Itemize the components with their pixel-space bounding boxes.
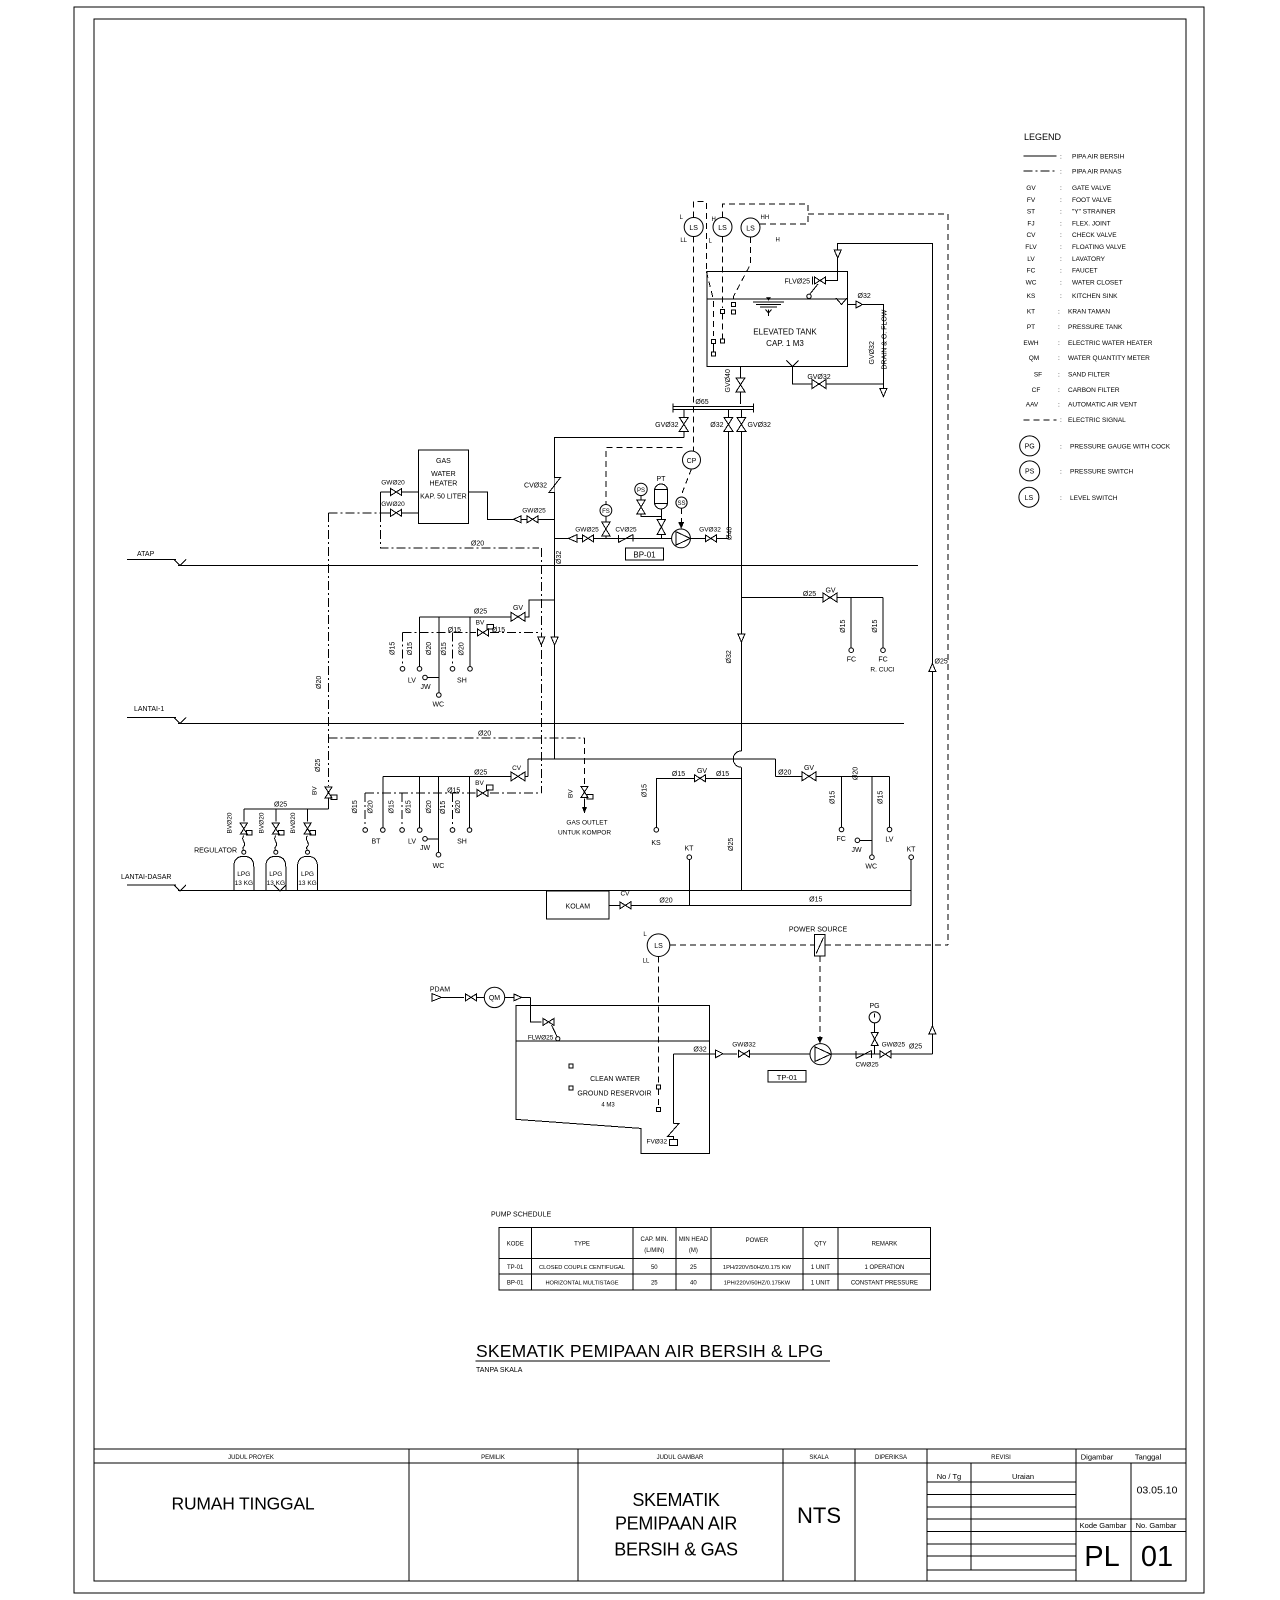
LPG tank 3 [306,850,310,854]
main riser crossing loop at distribution line [733,751,741,767]
svg-text:KT: KT [685,846,695,853]
pressure switch PS [635,483,647,495]
svg-text:CLEAN WATER: CLEAN WATER [590,1076,640,1083]
svg-text:Ø32: Ø32 [693,1047,706,1054]
svg-text:REGULATOR: REGULATOR [194,848,237,855]
svg-text:CV: CV [512,765,522,772]
svg-text:Ø15: Ø15 [840,619,847,632]
BT hot drop [364,793,366,828]
svg-text:GVØ32: GVØ32 [655,422,678,429]
svg-text:GROUND RESERVOIR: GROUND RESERVOIR [577,1091,651,1098]
pump schedule table [499,1227,931,1290]
svg-text:13 KG: 13 KG [267,880,285,887]
svg-text:FC: FC [847,657,856,664]
svg-text:TYPE: TYPE [574,1242,590,1248]
reservoir suction line [673,1053,736,1055]
svg-text:QM: QM [489,995,500,1002]
svg-text:Ø25: Ø25 [909,1044,922,1051]
svg-text:REMARK: REMARK [872,1242,898,1248]
kran taman KT right [909,855,914,860]
svg-text:BP-01: BP-01 [507,1281,524,1287]
svg-text:KRAN TAMAN: KRAN TAMAN [1068,309,1110,316]
svg-text:CP: CP [687,458,697,465]
svg-text::: : [1060,169,1062,176]
svg-text:BV: BV [476,620,485,627]
discharge gate valve GV#32 [690,537,728,539]
svg-text:1PH/220V/50HZ/0.175KW: 1PH/220V/50HZ/0.175KW [724,1281,791,1287]
svg-text:JW: JW [851,847,862,854]
svg-text:EWH: EWH [1023,340,1038,347]
svg-text:PT: PT [1027,324,1035,331]
svg-text::: : [1060,469,1062,476]
legend PS symbol [1020,461,1040,481]
svg-text:BT: BT [372,838,382,845]
gate valve GV#32 right below manifold [740,409,742,751]
svg-text:1 UNIT: 1 UNIT [811,1281,830,1287]
svg-text:PEMIPAAN AIR: PEMIPAAN AIR [615,1514,737,1534]
svg-text:LPG: LPG [237,871,250,878]
svg-text:LEVEL SWITCH: LEVEL SWITCH [1070,495,1118,502]
svg-text:PIPA AIR BERSIH: PIPA AIR BERSIH [1072,154,1125,161]
svg-text:FOOT VALVE: FOOT VALVE [1072,197,1112,204]
svg-text:PS: PS [1025,469,1035,476]
svg-text:PEMILIK: PEMILIK [481,1455,505,1461]
LS1 wire down to CP [693,237,695,452]
probe squares left [569,1064,573,1068]
overflow notch [836,298,847,305]
faucet FC drop 1 [850,598,852,648]
SH hot drop [452,793,454,828]
svg-text:FC: FC [878,657,887,664]
BT drop [382,776,384,827]
svg-text:CV: CV [620,891,630,898]
svg-text:PG: PG [869,1003,879,1010]
svg-text:Ø32: Ø32 [710,422,723,429]
svg-text:TP-01: TP-01 [777,1073,797,1082]
svg-text:LL: LL [680,238,687,244]
svg-text:JUDUL PROYEK: JUDUL PROYEK [228,1455,274,1461]
svg-text:FAUCET: FAUCET [1072,268,1098,275]
svg-text:GVØ32: GVØ32 [807,374,830,381]
svg-text:Ø15: Ø15 [830,791,837,804]
JW tap [423,675,428,680]
svg-text:Ø15: Ø15 [448,627,461,634]
tank drain line with GV#32 [793,366,884,384]
lantai-1 fixture header [420,600,555,617]
LS2 probe squares [721,310,725,314]
manifold header phi65 [673,406,754,408]
svg-text::: : [1060,154,1062,161]
svg-text:LANTAI-DASAR: LANTAI-DASAR [121,874,171,881]
svg-text:Ø15: Ø15 [809,897,822,904]
svg-text:HEATER: HEATER [429,481,457,488]
svg-text:WC: WC [433,863,445,870]
kolam feed pipe [609,904,911,906]
svg-text:SS: SS [677,501,685,507]
ball valve BV on gas riser [325,787,332,798]
svg-text:CARBON FILTER: CARBON FILTER [1068,387,1120,394]
svg-text:FC: FC [1027,268,1036,275]
check valve CV#25 [618,535,633,543]
svg-text:GVØ32: GVØ32 [748,422,771,429]
LS2 wire to probes [722,237,724,309]
svg-text:ELECTRIC SIGNAL: ELECTRIC SIGNAL [1068,417,1126,424]
svg-text:TANPA SKALA: TANPA SKALA [476,1367,523,1374]
svg-text:RUMAH TINGGAL: RUMAH TINGGAL [172,1494,315,1514]
lavatory hot drop [402,633,404,667]
WC drop right [871,776,873,855]
LV drop [419,776,421,827]
svg-text:NTS: NTS [797,1503,841,1528]
svg-text:Ø20: Ø20 [471,541,484,548]
svg-text:Ø15: Ø15 [447,788,460,795]
electric signal riser right [947,214,949,945]
gate valve GV#40 [736,378,745,392]
svg-text:LPG: LPG [301,871,314,878]
svg-text:SF: SF [1034,372,1042,379]
LPG tank 1 [242,850,246,854]
svg-text:GV: GV [697,768,707,775]
svg-text:FVØ32: FVØ32 [647,1139,668,1146]
svg-text:LAVATORY: LAVATORY [1072,256,1106,263]
legend LS symbol [1019,487,1039,507]
LS3 wire to probes [733,237,750,301]
svg-text::: : [1060,256,1062,263]
transfer pump TP-01 [810,1044,831,1065]
electric signal line to right riser [808,213,948,215]
svg-text:LS: LS [689,225,698,232]
LV hot drop [401,793,403,828]
svg-text:MIN HEAD: MIN HEAD [679,1237,709,1243]
svg-text:LV: LV [1027,256,1035,263]
svg-text:BVØ20: BVØ20 [290,812,297,833]
svg-text:CAP. MIN.: CAP. MIN. [641,1237,669,1243]
svg-text::: : [1058,340,1060,347]
gas line lantai-1 [329,737,585,739]
svg-text:Ø20: Ø20 [478,731,491,738]
svg-text:PT: PT [657,476,667,483]
svg-text:KS: KS [651,840,661,847]
svg-text:Ø20: Ø20 [778,770,791,777]
svg-text:Ø25: Ø25 [728,838,735,851]
flow switch FS [600,505,612,517]
svg-text:PIPA AIR PANAS: PIPA AIR PANAS [1072,169,1122,176]
svg-text:ELEVATED TANK: ELEVATED TANK [753,328,817,337]
svg-text::: : [1060,293,1062,300]
svg-text:CHECK VALVE: CHECK VALVE [1072,232,1117,239]
svg-text:BVØ20: BVØ20 [227,812,234,833]
svg-text:"Y" STRAINER: "Y" STRAINER [1072,209,1116,216]
svg-text::: : [1060,197,1062,204]
GWH hot outlet pipe [381,512,419,514]
svg-text::: : [1060,209,1062,216]
svg-text:GVØ40: GVØ40 [725,369,732,392]
svg-text:03.05.10: 03.05.10 [1137,1485,1178,1497]
svg-text:BVØ20: BVØ20 [259,812,266,833]
svg-text::: : [1060,268,1062,275]
svg-text:Digambar: Digambar [1081,1453,1114,1462]
svg-text::: : [1058,372,1060,379]
booster pump BP-01 [672,529,691,548]
gas water heater box [418,450,468,523]
svg-text:13 KG: 13 KG [235,880,253,887]
svg-text:R. CUCI: R. CUCI [870,667,894,674]
svg-text:BV: BV [312,786,319,795]
svg-text:CV: CV [1026,232,1036,239]
shower SH drop [469,617,471,667]
svg-text:WATER QUANTITY METER: WATER QUANTITY METER [1068,355,1150,362]
svg-text:GV: GV [825,588,835,595]
svg-text:13 KG: 13 KG [298,880,316,887]
gate valve GW#25 on suction [583,535,594,542]
power wire to TP-01 [819,956,821,1038]
speed switch SS [676,497,687,508]
svg-text:PRESSURE SWITCH: PRESSURE SWITCH [1070,469,1134,476]
LPG manifold [244,808,329,810]
water level symbol [766,297,771,301]
svg-text:WATER CLOSET: WATER CLOSET [1072,280,1123,287]
svg-text:ELECTRIC WATER HEATER: ELECTRIC WATER HEATER [1068,340,1153,347]
svg-text:KAP. 50 LITER: KAP. 50 LITER [420,494,467,501]
svg-text:LS: LS [718,225,727,232]
JW tap right [855,838,860,843]
hot riser from GWH down [540,548,542,793]
svg-text:Ø25: Ø25 [315,759,322,772]
svg-text::: : [1060,495,1062,502]
svg-text:KT: KT [1027,309,1035,316]
hot water line with ball valve BV [403,632,477,634]
svg-text:4 M3: 4 M3 [601,1103,615,1109]
svg-text:LANTAI-1: LANTAI-1 [134,706,164,713]
water quantity meter QM [484,987,504,1007]
svg-text:Ø15: Ø15 [390,642,397,655]
legend codes [1023,185,1042,409]
svg-text:No. Gambar: No. Gambar [1136,1521,1177,1530]
svg-text::: : [1058,387,1060,394]
svg-text:GVØ32: GVØ32 [869,341,876,364]
svg-text:PS: PS [637,488,645,494]
gate valve GW#32 [739,1050,750,1057]
svg-text:SKEMATIK: SKEMATIK [632,1490,720,1510]
right cells [1076,1518,1186,1520]
svg-text:FLV: FLV [1025,244,1037,251]
LS level switch reservoir [647,934,670,957]
svg-text:SH: SH [457,677,467,684]
svg-text:GV: GV [804,765,814,772]
svg-text::: : [1060,417,1062,424]
title block frame [94,1448,1186,1450]
svg-text:Kode Gambar: Kode Gambar [1080,1521,1127,1530]
svg-text:DRAIN & O. FLOW: DRAIN & O. FLOW [882,309,889,369]
svg-text:LS: LS [1025,495,1034,502]
inlet float valve FLW#25 [531,997,542,1022]
tank outlet pipe [740,366,742,404]
control panel CP [683,451,701,469]
level switch LS3 [741,218,760,237]
svg-text:Ø20: Ø20 [316,676,323,689]
svg-text:QM: QM [1029,355,1039,362]
FC drop right [841,776,843,827]
svg-text:Ø15: Ø15 [440,801,447,814]
svg-text::: : [1060,232,1062,239]
svg-text:GWØ20: GWØ20 [381,501,405,508]
svg-text:SH: SH [457,838,467,845]
svg-text:AAV: AAV [1026,402,1039,409]
svg-text:WATER: WATER [431,471,456,478]
svg-text::: : [1060,244,1062,251]
svg-text:GAS OUTLET: GAS OUTLET [566,820,607,827]
svg-text:FLVØ25: FLVØ25 [784,279,810,286]
level switch LS2 [713,218,732,237]
svg-text:40: 40 [690,1281,697,1287]
svg-text:Ø15: Ø15 [642,784,649,797]
svg-text:Ø20: Ø20 [426,642,433,655]
svg-text:FC: FC [837,836,846,843]
right riser phi25 labels/arrows [929,664,936,672]
svg-text:CVØ32: CVØ32 [524,483,547,490]
gas riser phi20/phi25 [328,513,330,786]
svg-text:FS: FS [602,509,610,515]
svg-text:CF: CF [1032,387,1041,394]
LS3 wire to electric riser [760,214,808,224]
svg-text:TP-01: TP-01 [507,1265,524,1271]
svg-text:1 OPERATION: 1 OPERATION [864,1265,904,1271]
svg-text:Ø20: Ø20 [426,800,433,813]
svg-text:POWER SOURCE: POWER SOURCE [789,927,848,934]
svg-text:FLWØ25: FLWØ25 [528,1035,554,1042]
svg-text:25: 25 [651,1281,658,1287]
svg-text:Ø25: Ø25 [474,770,487,777]
svg-text:UNTUK KOMPOR: UNTUK KOMPOR [558,830,611,837]
svg-text:Ø25: Ø25 [274,802,287,809]
svg-text:PRESSURE TANK: PRESSURE TANK [1068,324,1123,331]
legend descriptions [1058,154,1171,503]
svg-text:Ø20: Ø20 [458,642,465,655]
svg-text:BV: BV [475,780,484,787]
svg-text:GV: GV [513,605,523,612]
gas line from LPG riser [329,512,381,514]
svg-text:CVØ25: CVØ25 [615,527,637,534]
svg-text:KT: KT [907,847,917,854]
svg-text::: : [1060,280,1062,287]
kolam box [547,891,609,919]
svg-text:LV: LV [885,837,893,844]
svg-text:LEGEND: LEGEND [1024,132,1062,142]
svg-text:1 UNIT: 1 UNIT [811,1265,830,1271]
elevated tank body [707,272,847,367]
svg-text:GV: GV [1026,185,1036,192]
svg-text:LPG: LPG [269,871,282,878]
svg-text:FJ: FJ [1027,221,1034,228]
svg-text:PUMP SCHEDULE: PUMP SCHEDULE [491,1212,551,1219]
svg-text:Ø20: Ø20 [853,767,860,780]
svg-text:Ø15: Ø15 [352,800,359,813]
kitchen sink KS branch from riser [656,778,741,827]
down arrow on riser [551,637,558,645]
svg-text:Ø25: Ø25 [935,659,948,666]
svg-text::: : [1058,355,1060,362]
shower hot drop [452,633,454,667]
svg-text:HORIZONTAL MULTISTAGE: HORIZONTAL MULTISTAGE [545,1281,618,1287]
JW tap [423,837,428,842]
svg-text:CWØ25: CWØ25 [855,1062,879,1069]
svg-text:Ø25: Ø25 [474,609,487,616]
overflow line [848,305,884,391]
tank fill pipe from riser [826,244,933,1055]
tank drain notch [787,361,799,367]
LS1 wire to probes [694,202,707,272]
svg-text:Ø32: Ø32 [858,293,871,300]
svg-text:FLOATING VALVE: FLOATING VALVE [1072,244,1126,251]
svg-text:PDAM: PDAM [430,987,450,994]
svg-text:GWØ25: GWØ25 [522,508,546,515]
kran taman KT left [687,855,692,860]
gas outlet drop [584,738,586,786]
svg-text:1PH/220V/50HZ/0.175 KW: 1PH/220V/50HZ/0.175 KW [723,1265,792,1271]
svg-text:KITCHEN SINK: KITCHEN SINK [1072,293,1118,300]
svg-text:GAS: GAS [436,458,451,465]
lavatory LV drop [419,617,421,667]
svg-text:GWØ25: GWØ25 [882,1042,906,1049]
svg-text:GWØ25: GWØ25 [575,527,599,534]
gate valve GW#25 discharge [880,1051,891,1058]
svg-text:PL: PL [1084,1541,1119,1573]
svg-text:JUDUL GAMBAR: JUDUL GAMBAR [657,1455,704,1461]
flex joint CV#32 [549,478,561,493]
ATAP branch to FC group [741,597,883,599]
svg-text:Ø25: Ø25 [803,591,816,598]
GWH gas inlet pipe [381,491,419,493]
svg-text:Ø20: Ø20 [455,800,462,813]
svg-text:WC: WC [865,864,877,871]
svg-text:No / Tg: No / Tg [937,1472,961,1481]
legend PG symbol [1020,436,1040,456]
distribution line lantai-1 to dasar [528,758,775,760]
svg-text:GWØ32: GWØ32 [732,1042,756,1049]
svg-text:KODE: KODE [507,1242,524,1248]
svg-text:CLOSED COUPLE CENTIFUGAL: CLOSED COUPLE CENTIFUGAL [539,1265,625,1271]
lantai-dasar left header [383,775,528,777]
water line [707,298,847,300]
svg-text:H: H [712,217,716,223]
LS probe wire [658,957,660,1086]
svg-text:Ø15: Ø15 [441,642,448,655]
LS3 probe squares [731,303,735,307]
svg-text:25: 25 [690,1265,697,1271]
svg-text:CAP. 1 M3: CAP. 1 M3 [766,339,804,348]
svg-text:LL: LL [643,959,650,965]
svg-text:QTY: QTY [814,1242,826,1248]
discharge check valve CW#25 [831,1053,932,1055]
hot line lantai-dasar with ball valve BV [365,792,475,794]
svg-text::: : [1058,309,1060,316]
svg-text:Ø20: Ø20 [367,800,374,813]
svg-text:LV: LV [408,677,416,684]
svg-text:Ø15: Ø15 [492,627,505,634]
svg-text:LS: LS [654,943,663,950]
svg-text:GATE VALVE: GATE VALVE [1072,185,1112,192]
svg-text:WC: WC [1026,280,1037,287]
BP-01 suction line [555,537,672,539]
svg-text:JW: JW [420,845,431,852]
svg-text:LS: LS [746,225,755,232]
svg-text:SKEMATIK PEMIPAAN AIR BERSI: SKEMATIK PEMIPAAN AIR BERSIH & LPG [476,1341,824,1361]
level switch LS1 [684,218,703,237]
suction header to riser [555,437,684,759]
svg-text:PG: PG [1025,444,1035,451]
svg-text:KS: KS [1027,293,1036,300]
svg-text:Ø15: Ø15 [672,771,685,778]
